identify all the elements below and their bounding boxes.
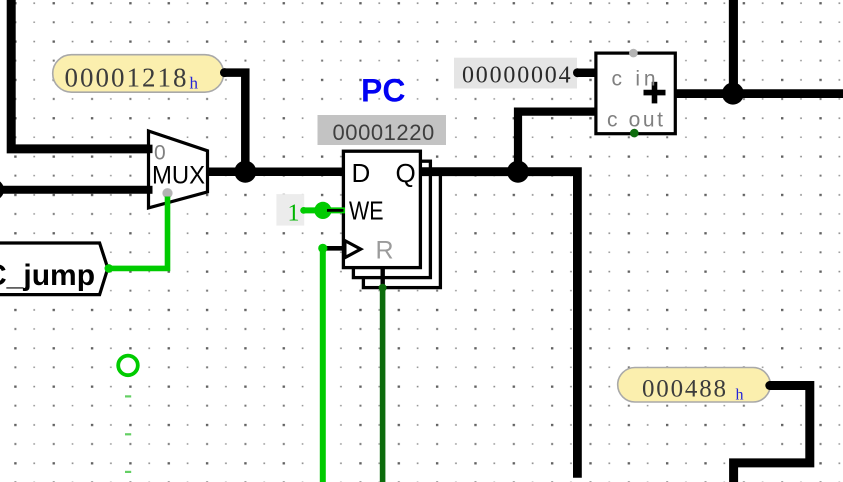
register R reset connector xyxy=(381,268,385,288)
register pin label WE xyxy=(349,196,384,226)
WE junction dot xyxy=(314,202,331,219)
register clock triangle xyxy=(345,241,361,258)
wire: register Q output bus xyxy=(420,172,577,478)
constant value box 00000004 xyxy=(454,58,577,89)
adder plus sign xyxy=(644,82,666,104)
probe label A2 000488h (yellow oval) xyxy=(618,368,771,404)
MUX label 0 xyxy=(154,142,166,165)
junction node on MUX output xyxy=(234,161,256,183)
adder label c out xyxy=(607,109,663,132)
register value box 00001220 xyxy=(318,115,447,145)
green tick mark 3 xyxy=(125,471,131,473)
svg-text:00001218: 00001218 xyxy=(65,63,189,93)
MUX label xyxy=(152,162,205,190)
clock wire end dot xyxy=(318,244,327,253)
MUX pin stubs xyxy=(149,149,153,190)
svg-text:D: D xyxy=(352,158,371,188)
register PC echo copy 1 xyxy=(353,161,430,277)
wire: top-left vertical bus into MUX input 0 xyxy=(11,0,152,149)
svg-text:00000004: 00000004 xyxy=(462,63,572,89)
junction on sum bus xyxy=(722,83,744,105)
wire from label A2 to bottom bus xyxy=(734,381,810,482)
svg-text:Q: Q xyxy=(396,158,416,188)
svg-text:1: 1 xyxy=(288,201,300,227)
svg-text:000488: 000488 xyxy=(642,376,728,403)
svg-text:PC_jump: PC_jump xyxy=(0,259,95,292)
wire: vertical bus from top to sum node xyxy=(729,0,738,94)
adder carry-out pin dot xyxy=(630,129,639,138)
register PC main body xyxy=(343,151,420,267)
green tick mark 1 xyxy=(125,395,131,397)
green tick mark 2 xyxy=(125,433,131,435)
constant 1 value box xyxy=(276,194,304,226)
wire: green WE wire from constant xyxy=(300,207,345,214)
register clock stub xyxy=(323,246,344,251)
wire: dark green reset wire (logic 0) xyxy=(380,288,386,482)
wire: Q bus up to adder input B xyxy=(518,112,596,172)
label PC (component name) xyxy=(361,73,405,109)
reset pin dot xyxy=(379,284,387,292)
svg-text:MUX: MUX xyxy=(152,162,205,190)
tunnel PC_jump xyxy=(0,243,108,295)
svg-text:h: h xyxy=(190,74,199,93)
wire: green select from PC_jump to MUX select xyxy=(105,197,168,273)
MUX U1 body xyxy=(149,131,208,208)
register pin label Q xyxy=(396,158,416,188)
wire: MUX input 1 bus from left edge xyxy=(0,186,152,194)
svg-text:PC: PC xyxy=(361,73,405,109)
junction at left edge on input-1 wire xyxy=(0,179,4,200)
register pin label R xyxy=(376,236,394,264)
output pin ring (green) xyxy=(118,356,138,376)
register WE stub xyxy=(327,209,344,212)
adder U2 body xyxy=(596,53,675,134)
wire: green clock wire (logic 1) xyxy=(320,248,326,482)
svg-text:h: h xyxy=(736,387,744,404)
wire: constant 4 to adder input A xyxy=(573,68,596,77)
wire: MUX output bus to register D xyxy=(208,167,345,176)
svg-text:R: R xyxy=(376,236,394,264)
adder carry-in pin dot xyxy=(629,49,638,58)
adder label c in xyxy=(612,68,656,91)
svg-text:00001220: 00001220 xyxy=(333,120,435,145)
MUX select pin dot xyxy=(162,188,172,198)
register PC echo copy 2 xyxy=(363,171,440,287)
junction on Q bus xyxy=(507,161,529,183)
wire: adder sum output bus xyxy=(675,89,843,98)
probe label A1 00001218h (yellow oval) xyxy=(53,55,224,93)
register pin label D xyxy=(352,158,371,188)
wire from label A1 down to main bus node xyxy=(220,68,245,172)
svg-text:WE: WE xyxy=(349,196,384,226)
